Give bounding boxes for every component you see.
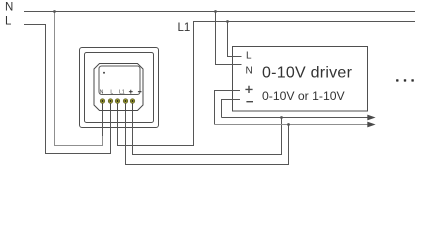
wire L drop to module	[46, 25, 111, 154]
junction dot on N at driver drop	[214, 10, 217, 13]
wire N drop dark segment near module	[102, 104, 104, 137]
svg-text:L: L	[246, 51, 252, 62]
module minus label	[138, 91, 142, 93]
wire driver plus stub and riser	[215, 91, 241, 125]
wire plus bus horizontal (light)	[215, 124, 368, 126]
wire L1 to driver L terminal	[228, 22, 242, 57]
svg-text:0-10V driver: 0-10V driver	[262, 65, 353, 82]
terminal plus screw	[123, 99, 127, 103]
junction dot minus bus	[280, 116, 283, 119]
svg-text:L1: L1	[119, 89, 125, 95]
svg-text:N: N	[100, 89, 104, 95]
svg-text:L: L	[5, 16, 12, 28]
terminal L screw	[108, 99, 112, 103]
wall box outer	[80, 48, 159, 128]
wire N mains horizontal	[24, 11, 415, 13]
terminal L1 screw	[115, 99, 119, 103]
ellipsis more drivers	[396, 79, 398, 81]
module plus label	[129, 90, 133, 94]
wall box inner	[85, 53, 154, 123]
wire L1 from module to bus	[118, 22, 194, 146]
wire module minus to minus bus	[133, 104, 282, 155]
svg-text:N: N	[246, 65, 253, 76]
wire module plus to plus bus	[126, 104, 289, 165]
driver terminal plus symbol	[245, 86, 252, 93]
wire L mains horizontal	[24, 24, 46, 26]
driver box U2	[233, 47, 368, 112]
arrowhead minus bus	[367, 115, 375, 121]
module indicator dot	[103, 72, 105, 74]
wire driver minus stub and riser	[222, 100, 241, 118]
junction dot plus bus	[287, 123, 290, 126]
svg-text:L1: L1	[178, 22, 191, 34]
wire L1 bus horizontal	[193, 21, 415, 23]
terminal pin stubs	[103, 101, 133, 111]
svg-text:L: L	[110, 89, 113, 95]
junction dot on L1 at driver drop	[226, 20, 229, 23]
svg-text:0-10V or 1-10V: 0-10V or 1-10V	[262, 89, 346, 103]
wire minus bus horizontal	[222, 117, 368, 119]
dimmer module U1 body	[94, 64, 143, 111]
svg-text:N: N	[5, 2, 13, 14]
wire N to driver N terminal	[216, 12, 242, 65]
arrowhead plus bus	[367, 122, 375, 128]
module terminal labels N L L1	[100, 89, 125, 95]
wire N drop to module (light)	[55, 12, 103, 146]
junction dot on N at module drop	[53, 10, 56, 13]
driver terminal minus symbol	[246, 101, 253, 103]
terminal N screw	[100, 99, 104, 103]
terminal minus screw	[130, 99, 134, 103]
dimmer module top face	[99, 66, 140, 95]
